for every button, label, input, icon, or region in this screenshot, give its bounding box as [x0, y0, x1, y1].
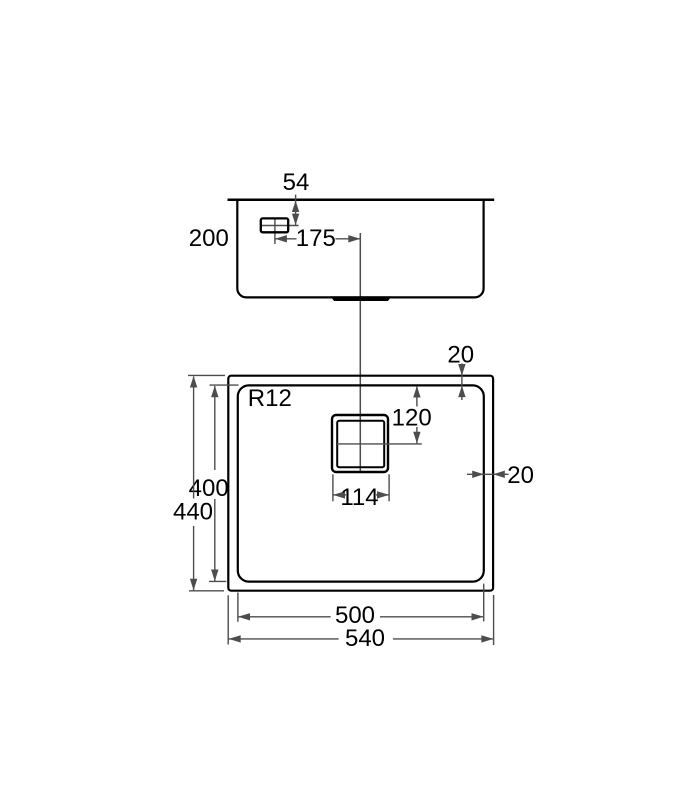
plan bowl rectangle R12 — [238, 385, 484, 581]
svg-text:175: 175 — [296, 225, 336, 252]
svg-text:120: 120 — [392, 405, 432, 432]
drain inner square (plan) — [337, 421, 384, 468]
svg-text:20: 20 — [447, 342, 474, 369]
svg-text:540: 540 — [345, 625, 385, 652]
dimension 114 (drain width, plan) — [333, 474, 389, 511]
svg-text:440: 440 — [173, 499, 213, 526]
label 200 (elevation depth) — [189, 225, 229, 252]
svg-text:114: 114 — [340, 484, 378, 511]
overflow rectangle (elevation) — [261, 218, 288, 232]
plan outer rim rectangle — [228, 376, 493, 591]
dimension 120 (vertical, plan) — [392, 386, 432, 444]
dimension 540 (overall width, plan bottom) — [228, 595, 493, 652]
dimension 175 (horizontal, elevation) — [275, 225, 360, 252]
counter top line — [228, 199, 495, 202]
dimension 440 (vertical, plan far left) — [173, 375, 225, 590]
dimension 20 top (rim width, plan) — [447, 342, 474, 401]
drain outer square (plan) — [332, 415, 388, 472]
svg-text:54: 54 — [283, 169, 310, 196]
dimension 20 right (rim width, plan) — [467, 462, 534, 489]
svg-text:20: 20 — [507, 462, 534, 489]
overflow cross lines (elevation) — [262, 220, 299, 245]
svg-text:200: 200 — [189, 225, 229, 252]
drain cross horizontal line — [337, 443, 422, 445]
sink body (side elevation outline) — [237, 200, 483, 298]
center line — [359, 233, 361, 471]
dimension 400 (vertical, plan left) — [189, 385, 239, 581]
dimension 54 (vertical, elevation) — [283, 169, 310, 225]
dimension 500 (bowl width, plan bottom) — [238, 584, 484, 629]
label R12 — [248, 385, 292, 412]
svg-text:R12: R12 — [248, 385, 292, 412]
drain recess bump (elevation bottom) — [331, 296, 392, 301]
